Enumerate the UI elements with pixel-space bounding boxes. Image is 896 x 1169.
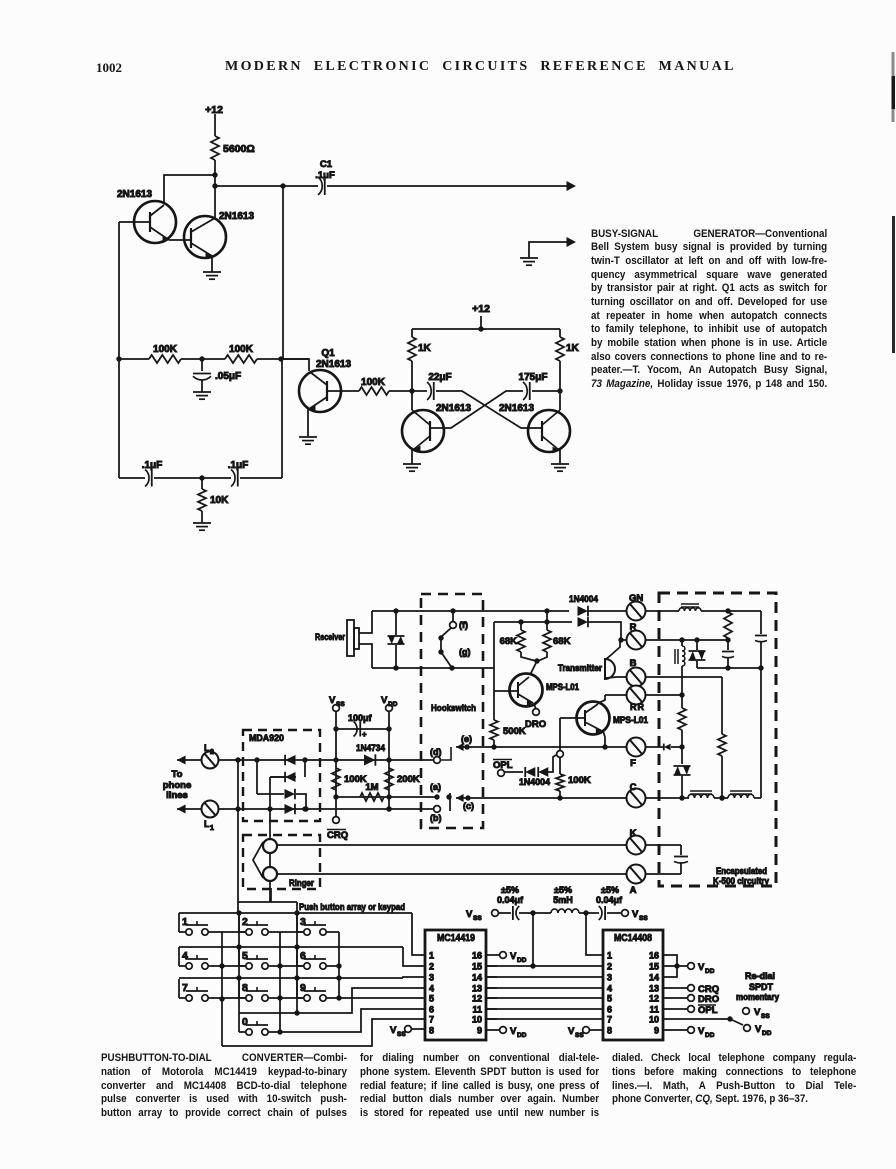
svg-text:V: V [755,1024,762,1035]
svg-text:Transmitter: Transmitter [558,663,602,673]
svg-text:To: To [172,769,183,780]
svg-text:.1μF: .1μF [142,460,163,471]
svg-text:±5%: ±5% [601,885,619,895]
svg-text:(c): (c) [463,801,474,811]
svg-text:16: 16 [472,951,482,961]
svg-text:momentary: momentary [736,992,779,1002]
svg-text:V: V [466,909,473,920]
svg-text:SS: SS [473,915,482,922]
svg-text:175μF: 175μF [519,372,548,383]
svg-text:C1: C1 [320,159,333,170]
svg-text:0: 0 [242,1016,248,1028]
svg-text:DD: DD [517,957,527,964]
svg-text:(b): (b) [430,813,442,823]
svg-text:1M: 1M [365,782,378,793]
svg-text:.05μF: .05μF [215,371,241,382]
svg-text:9: 9 [654,1026,659,1036]
svg-text:+12: +12 [472,303,490,315]
svg-text:2N1613: 2N1613 [436,403,471,414]
svg-text:Ringer: Ringer [289,878,314,889]
svg-text:2: 2 [210,749,214,756]
svg-text:8: 8 [607,1026,612,1036]
svg-text:SS: SS [397,1031,406,1038]
svg-text:15: 15 [472,962,482,972]
svg-text:MDA920: MDA920 [249,733,284,744]
svg-text:Hookswitch: Hookswitch [431,703,476,714]
svg-text:B: B [630,658,637,669]
svg-text:1K: 1K [418,343,432,354]
svg-text:SS: SS [639,915,648,922]
svg-text:±5%: ±5% [554,885,572,895]
svg-text:12: 12 [649,994,659,1004]
svg-text:7: 7 [607,1015,612,1025]
svg-text:5: 5 [429,994,434,1004]
svg-text:R: R [630,622,637,633]
svg-text:lines: lines [166,790,188,801]
svg-text:8: 8 [429,1026,434,1036]
svg-text:1N4004: 1N4004 [519,777,551,788]
svg-text:(d): (d) [430,747,442,757]
svg-text:100K: 100K [153,344,178,355]
svg-text:500K: 500K [503,726,526,737]
svg-text:100K: 100K [361,377,386,388]
svg-text:(e): (e) [461,734,472,744]
svg-text:±5%: ±5% [501,885,519,895]
svg-text:0.04μf: 0.04μf [596,895,623,905]
svg-text:9: 9 [300,982,306,994]
svg-text:13: 13 [649,984,659,994]
svg-text:7: 7 [429,1015,434,1025]
svg-text:V: V [632,909,639,920]
svg-text:+12: +12 [205,104,223,116]
svg-text:5600Ω: 5600Ω [223,143,255,155]
svg-text:Receiver: Receiver [315,632,345,643]
svg-text:2: 2 [429,962,434,972]
svg-text:2: 2 [242,916,248,928]
svg-text:V: V [390,1025,397,1036]
svg-text:V: V [381,695,388,706]
svg-text:DRO: DRO [525,719,546,730]
svg-text:10K: 10K [210,495,229,506]
svg-text:(a): (a) [430,782,441,792]
svg-text:V: V [698,1026,705,1037]
svg-text:4: 4 [182,950,188,962]
svg-text:10: 10 [472,1015,482,1025]
svg-text:K: K [630,828,637,839]
svg-text:GN: GN [629,593,643,604]
svg-text:68K: 68K [553,636,571,647]
svg-text:MC14419: MC14419 [437,932,475,944]
svg-text:V: V [329,695,336,706]
svg-text:6: 6 [300,950,306,962]
svg-text:V: V [698,962,705,973]
svg-text:12: 12 [472,994,482,1004]
svg-text:15: 15 [649,962,659,972]
svg-text:Encapsulated: Encapsulated [716,866,767,876]
svg-text:4: 4 [607,984,612,994]
svg-text:.1μF: .1μF [315,170,335,181]
svg-text:200K: 200K [397,774,420,785]
svg-text:MPS-L01: MPS-L01 [546,682,579,692]
svg-text:4: 4 [429,984,434,994]
svg-text:100K: 100K [344,774,367,785]
svg-text:.1μF: .1μF [228,460,249,471]
svg-text:1: 1 [607,951,612,961]
svg-text:(f): (f) [459,620,468,630]
svg-text:V: V [754,1007,761,1018]
svg-text:V: V [568,1026,575,1037]
svg-text:2N1613: 2N1613 [117,189,152,200]
svg-text:14: 14 [472,973,482,983]
svg-text:V: V [510,951,517,962]
svg-text:100μf: 100μf [348,713,373,723]
svg-text:16: 16 [649,951,659,961]
svg-text:V: V [510,1026,517,1037]
svg-text:100K: 100K [229,344,254,355]
svg-text:CRQ: CRQ [327,830,348,841]
svg-text:+: + [362,730,367,739]
svg-text:11: 11 [472,1005,482,1015]
svg-text:DD: DD [705,1032,715,1039]
svg-text:2N1613: 2N1613 [499,403,534,414]
svg-text:Push button array or keypad: Push button array or keypad [299,902,405,913]
svg-text:3: 3 [429,973,434,983]
svg-text:K-500 circuitry: K-500 circuitry [713,876,769,886]
svg-text:8: 8 [242,982,248,994]
svg-text:100K: 100K [568,775,591,786]
svg-text:10: 10 [649,1015,659,1025]
svg-text:A: A [630,885,637,896]
svg-text:5mH: 5mH [553,895,573,905]
svg-text:F: F [630,758,636,769]
svg-text:(g): (g) [459,647,471,657]
svg-text:SS: SS [761,1013,770,1020]
svg-text:2N1613: 2N1613 [316,359,351,370]
svg-text:RR: RR [630,702,645,712]
svg-text:22μF: 22μF [428,372,451,383]
svg-text:SS: SS [336,701,345,708]
svg-text:6: 6 [607,1005,612,1015]
svg-text:0.04μf: 0.04μf [497,895,524,905]
svg-text:OPL: OPL [493,760,513,771]
svg-text:OPL: OPL [698,1005,718,1016]
svg-text:C: C [630,782,637,793]
svg-text:DD: DD [388,701,398,708]
svg-text:14: 14 [649,973,659,983]
svg-text:3: 3 [607,973,612,983]
svg-text:2: 2 [607,962,612,972]
svg-text:MC14408: MC14408 [614,932,652,944]
svg-text:6: 6 [429,1005,434,1015]
svg-text:13: 13 [472,984,482,994]
svg-text:1: 1 [210,825,214,832]
svg-text:DD: DD [705,968,715,975]
svg-text:2N1613: 2N1613 [219,211,254,222]
svg-text:DD: DD [762,1030,772,1037]
svg-text:11: 11 [649,1005,659,1015]
svg-text:68K: 68K [500,636,518,647]
svg-text:9: 9 [477,1026,482,1036]
svg-text:MPS-L01: MPS-L01 [613,715,648,725]
svg-text:3: 3 [300,916,306,928]
svg-text:1: 1 [182,916,188,928]
svg-text:DD: DD [517,1032,527,1039]
svg-text:1N4004: 1N4004 [569,594,599,605]
svg-text:Q1: Q1 [321,348,335,359]
svg-text:SS: SS [575,1032,584,1039]
svg-text:7: 7 [182,982,188,994]
svg-text:1N4734: 1N4734 [356,743,386,754]
svg-text:1K: 1K [566,343,580,354]
svg-text:5: 5 [242,950,248,962]
svg-text:1: 1 [429,951,434,961]
svg-text:SPDT: SPDT [749,982,774,992]
svg-text:DRO: DRO [698,994,719,1005]
svg-text:5: 5 [607,994,612,1004]
svg-text:Re-dial: Re-dial [745,971,775,981]
